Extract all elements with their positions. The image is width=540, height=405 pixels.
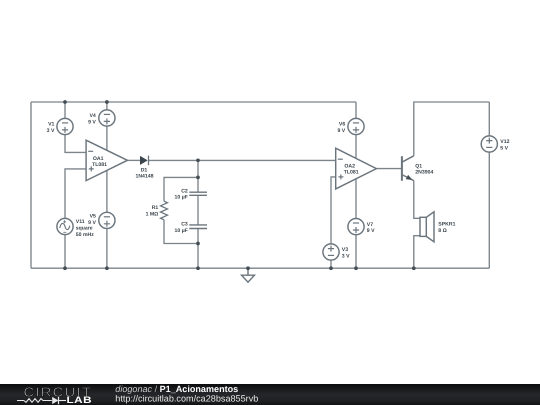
junction node R1 top — [196, 176, 200, 180]
svg-text:9 V: 9 V — [88, 120, 96, 126]
wire C2 to C3 — [197, 195, 199, 225]
svg-text:3 V: 3 V — [342, 254, 350, 260]
wire V1 top stub — [64, 102, 66, 118]
diode D1 — [140, 156, 149, 166]
transistor Q1 — [402, 156, 414, 181]
capacitor C2 — [189, 192, 207, 195]
svg-text:9 V: 9 V — [337, 128, 345, 134]
label SPKR1 value — [438, 222, 455, 234]
voltage source V12 — [481, 136, 497, 152]
svg-text:TL081: TL081 — [92, 162, 107, 168]
svg-text:square: square — [76, 225, 93, 231]
svg-text:V12: V12 — [500, 139, 509, 145]
wire OA1 output to D1 — [127, 159, 140, 161]
junction node V11 bottom — [63, 266, 67, 270]
op-amp OA2 — [336, 148, 377, 189]
wire OA1 plus input to V11 — [65, 169, 86, 219]
label C3 value — [175, 221, 188, 234]
label D1 designator — [135, 167, 153, 179]
wire Q1 collector to top — [414, 102, 490, 156]
svg-text:TL081: TL081 — [344, 170, 359, 176]
junction node C3 bottom — [196, 266, 200, 270]
svg-text:V6: V6 — [339, 122, 345, 128]
label V5 value — [88, 214, 96, 226]
svg-text:3 V: 3 V — [47, 128, 55, 134]
junction node V7 bottom — [354, 266, 358, 270]
voltage source V7 — [348, 219, 364, 235]
wire OA1 vminus pin to V5 — [106, 171, 108, 213]
label V4 value — [88, 113, 96, 125]
label OA1 designator — [92, 156, 107, 168]
wire Q1 emitter to SPKR1 — [414, 181, 420, 219]
svg-text:Q1: Q1 — [415, 163, 422, 169]
svg-text:1N4148: 1N4148 — [135, 174, 153, 180]
svg-text:OA2: OA2 — [344, 163, 355, 169]
svg-text:2N3904: 2N3904 — [415, 170, 433, 176]
junction node at V1 top — [63, 100, 67, 104]
wire R1 top branch — [164, 177, 198, 201]
footer bar — [0, 384, 540, 405]
svg-text:V5: V5 — [90, 214, 96, 220]
capacitor C3 — [189, 225, 207, 229]
wire OA2 vminus pin to V7 — [355, 179, 357, 219]
label V12 value — [500, 139, 509, 151]
junction node at V4 top — [105, 100, 109, 104]
wire C3 to bottom rail — [197, 229, 199, 269]
label Q1 designator — [415, 163, 433, 175]
wire V11 bottom — [64, 235, 66, 269]
label V7 value — [367, 222, 375, 234]
wire V12 to bottom rail — [488, 152, 490, 268]
wire bottom rail — [31, 267, 489, 269]
svg-text:10 µF: 10 µF — [175, 228, 188, 234]
wire right rail top to V12 — [488, 102, 490, 136]
junction node ground — [246, 266, 250, 270]
wire V1 to OA1 minus input — [65, 135, 86, 153]
wire left rail — [30, 102, 32, 268]
label V1 value — [47, 122, 55, 134]
svg-text:V1: V1 — [48, 122, 54, 128]
speaker SPKR1 — [420, 212, 434, 242]
wire V4 top stub — [106, 102, 108, 110]
junction node D1 output / C2 branch — [196, 158, 200, 162]
wire SPKR1 to bottom rail — [414, 236, 420, 269]
svg-text:V4: V4 — [90, 113, 96, 119]
voltage source V5 — [99, 212, 115, 228]
svg-text:LAB: LAB — [67, 394, 93, 405]
svg-text:50 mHz: 50 mHz — [76, 232, 94, 238]
svg-text:V7: V7 — [367, 222, 373, 228]
wire node to C2 — [197, 160, 199, 192]
svg-text:9 V: 9 V — [367, 228, 375, 234]
svg-text:V3: V3 — [342, 247, 348, 253]
wire OA2 plus input to V3 — [331, 177, 336, 244]
ground — [242, 268, 255, 282]
svg-text:diogonac / P1_Acionamentos: diogonac / P1_Acionamentos — [115, 384, 238, 394]
wire OA2 output to Q1 base — [376, 168, 402, 170]
wire D1 to OA2 minus input — [149, 159, 336, 161]
svg-text:R1: R1 — [152, 205, 159, 211]
svg-text:1 MΩ: 1 MΩ — [146, 211, 159, 217]
wire top rail — [31, 101, 356, 103]
svg-text:OA1: OA1 — [93, 156, 104, 162]
logo resistor-diode squiggle — [17, 397, 66, 404]
junction node V5 bottom — [105, 266, 109, 270]
wire V3 bottom — [330, 260, 332, 268]
svg-text:D1: D1 — [141, 167, 148, 173]
svg-text:5 V: 5 V — [500, 145, 508, 151]
junction node SPKR1 bottom — [412, 266, 416, 270]
voltage source V6 — [348, 118, 364, 134]
wire R1 bottom branch — [164, 220, 198, 244]
svg-text:V11: V11 — [76, 219, 85, 225]
wire top rail to V6 — [355, 102, 357, 118]
voltage source V3 — [323, 244, 339, 260]
wire V5 bottom — [106, 229, 108, 269]
svg-text:http://circuitlab.com/ca28bsa8: http://circuitlab.com/ca28bsa855rvb — [115, 393, 258, 403]
label V3 value — [342, 247, 350, 259]
op-amp OA1 — [86, 140, 127, 180]
label OA2 designator — [344, 163, 359, 175]
wire V7 bottom — [355, 235, 357, 269]
voltage source V11 square — [57, 218, 73, 234]
svg-text:10 µF: 10 µF — [175, 195, 188, 201]
voltage source V1 — [57, 118, 73, 134]
voltage source V4 — [99, 110, 115, 126]
svg-text:C3: C3 — [181, 221, 188, 227]
label V6 value — [337, 122, 345, 134]
junction node V3 bottom — [329, 266, 333, 270]
label V11 value — [76, 219, 94, 238]
label R1 value — [146, 205, 159, 217]
svg-text:9 V: 9 V — [88, 220, 96, 226]
svg-text:SPKR1: SPKR1 — [438, 222, 455, 228]
junction node R1 bottom — [196, 242, 200, 246]
wire V4 to OA1 vplus pin — [106, 126, 108, 150]
svg-text:8 Ω: 8 Ω — [438, 228, 446, 234]
resistor R1 — [161, 201, 168, 220]
wire V6 to OA2 vplus pin — [355, 135, 357, 159]
label C2 value — [175, 189, 188, 201]
